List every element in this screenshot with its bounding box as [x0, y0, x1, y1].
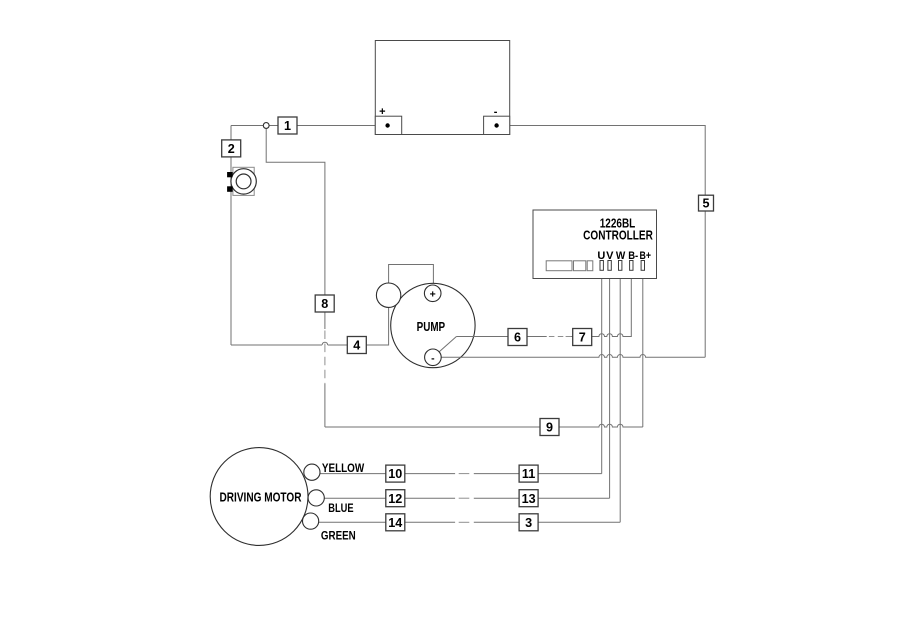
key switch body square: [233, 167, 254, 195]
box 4: [347, 337, 366, 354]
svg-text:14: 14: [388, 516, 402, 530]
wire U column from terminal down to yellow row: [601, 270, 603, 473]
svg-text:12: 12: [388, 492, 402, 506]
battery plus terminal dot: [385, 123, 389, 127]
svg-text:B-: B-: [628, 250, 638, 262]
box 2: [222, 140, 241, 157]
controller connector block small: [587, 261, 593, 271]
wire V column from terminal down to blue row: [609, 270, 611, 498]
terminal B- pin: [630, 261, 633, 271]
pump small auxiliary circle: [376, 283, 400, 307]
motor green terminal circle: [303, 513, 319, 529]
svg-text:U: U: [597, 250, 605, 262]
wire left drop through box2 and key switch: [230, 126, 232, 346]
key switch outer circle: [231, 169, 256, 194]
svg-text:BLUE: BLUE: [328, 501, 353, 515]
battery minus terminal dot: [494, 123, 498, 127]
svg-text:4: 4: [353, 339, 360, 353]
svg-text:PUMP: PUMP: [417, 319, 446, 334]
svg-text:CONTROLLER: CONTROLLER: [583, 229, 653, 243]
wire node down and across to box8 column: [266, 126, 325, 330]
svg-text:1: 1: [284, 119, 291, 133]
svg-text:V: V: [606, 250, 614, 262]
svg-text:W: W: [616, 250, 626, 262]
node junction circle: [263, 123, 269, 129]
wire green row left solid: [315, 521, 455, 523]
motor blue terminal circle: [308, 490, 324, 506]
svg-text:7: 7: [579, 331, 586, 345]
box 12: [386, 490, 405, 507]
motor yellow terminal circle: [304, 464, 320, 480]
terminal U pin: [600, 261, 603, 271]
svg-text:5: 5: [702, 197, 709, 211]
wire green row right solid to W column: [474, 521, 620, 523]
driving motor circle: [210, 448, 308, 546]
svg-text:10: 10: [388, 467, 402, 481]
controller box: [533, 210, 657, 279]
svg-text:11: 11: [522, 467, 535, 481]
wire W column from terminal down to green row: [619, 270, 621, 522]
key switch inner circle: [236, 174, 251, 189]
controller connector block medium: [574, 261, 586, 271]
wire box8 column lower solid to box9 row: [324, 384, 326, 427]
svg-text:3: 3: [525, 516, 532, 530]
svg-text:-: -: [431, 352, 435, 364]
battery plus terminal box: [375, 116, 401, 134]
wire box4 row left part: [231, 344, 322, 346]
terminal W pin: [619, 261, 622, 271]
wire pump minus diagonal: [439, 337, 456, 352]
wire yellow row dash: [459, 473, 470, 475]
svg-text:+: +: [430, 288, 436, 300]
svg-text:6: 6: [514, 331, 521, 345]
wire green row dash: [459, 521, 470, 523]
svg-text:DRIVING MOTOR: DRIVING MOTOR: [220, 490, 302, 505]
wire battery- to top-right corner and down through box5: [510, 126, 706, 358]
wire box9 row with hops: [325, 424, 643, 427]
terminal V pin: [608, 261, 611, 271]
pump minus terminal circle: [425, 349, 442, 366]
wire blue row dash: [459, 497, 470, 499]
svg-text:-: -: [494, 106, 498, 118]
svg-text:9: 9: [546, 421, 553, 435]
svg-text:2: 2: [228, 142, 235, 156]
wire blue row right solid to V column: [474, 497, 610, 499]
wire box7 row with hops to B- column: [571, 270, 631, 336]
wire box6 row solid left part: [456, 336, 546, 338]
wire yellow row left solid: [317, 473, 455, 475]
box 10: [386, 465, 405, 482]
wire dashes between box6 and box7: [549, 336, 571, 338]
svg-text:YELLOW: YELLOW: [322, 461, 365, 475]
wire hop over dashed column on box4 row: [322, 342, 328, 345]
battery minus terminal box: [484, 116, 510, 134]
box 6: [508, 329, 527, 346]
key switch lower lug: [227, 186, 233, 192]
terminal B+ pin: [641, 261, 644, 271]
box 1: [278, 117, 297, 134]
wire B+ column from terminal down to box9 row: [642, 270, 644, 427]
svg-text:13: 13: [522, 492, 536, 506]
box 14: [386, 514, 405, 531]
controller connector block large: [546, 261, 572, 271]
box 3: [519, 514, 538, 531]
box 9: [540, 419, 559, 436]
wire pump minus row with hops to box5 column: [441, 354, 705, 357]
box 13: [519, 490, 538, 507]
box 5: [699, 195, 714, 211]
box 11: [519, 465, 538, 482]
box 7: [573, 329, 592, 346]
box 8: [315, 295, 334, 312]
pump plus terminal circle: [424, 285, 441, 302]
wire battery+ to box1/node: [231, 125, 375, 127]
svg-text:GREEN: GREEN: [321, 529, 356, 543]
pump body circle: [391, 283, 475, 367]
svg-text:B+: B+: [640, 250, 652, 262]
battery body: [375, 41, 509, 135]
svg-text:8: 8: [321, 297, 328, 311]
wire box4 row right part up to pump small circle: [328, 307, 389, 345]
wire bracket from small circle to pump plus: [389, 265, 434, 286]
wire blue row left solid: [320, 497, 455, 499]
svg-text:+: +: [379, 106, 385, 118]
wire dashed segment of box8 column: [324, 331, 326, 385]
wire yellow row right solid to U column: [474, 473, 602, 475]
key switch upper lug: [227, 172, 233, 177]
